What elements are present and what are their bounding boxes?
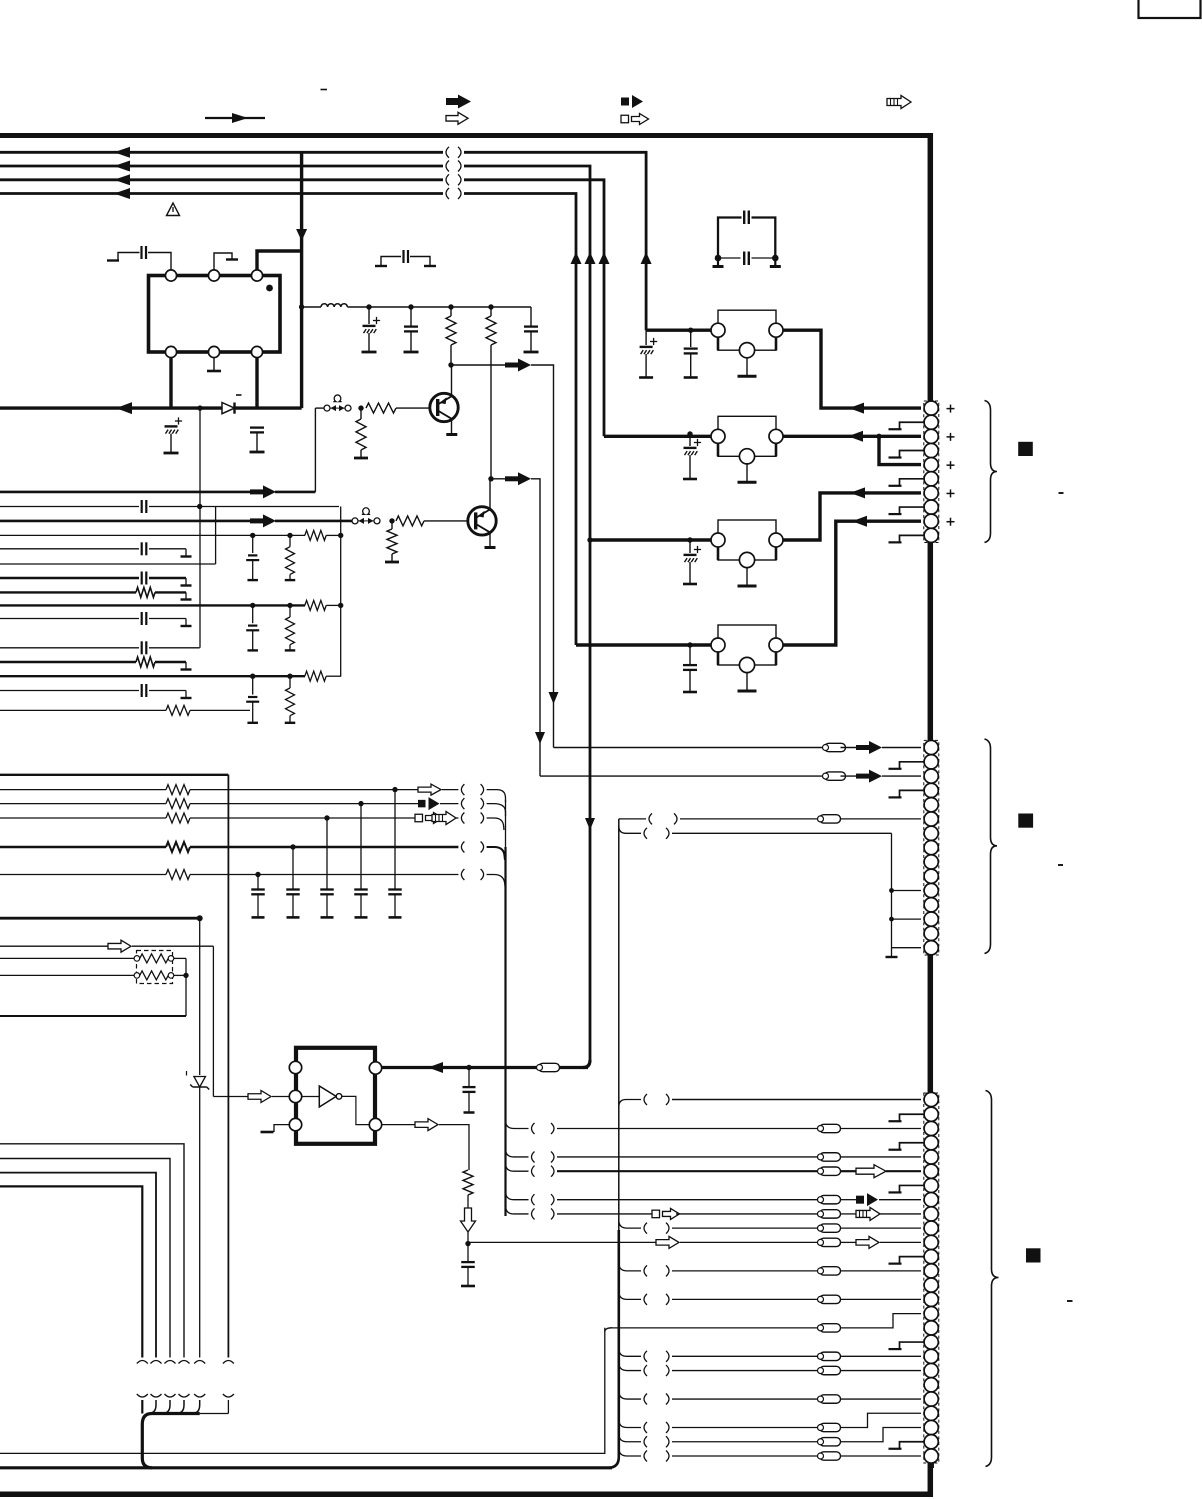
node A: junction at (451,365) with branch arrow right	[448, 362, 453, 367]
wire: bus1 to X1 with junction and caps	[646, 329, 711, 332]
CN3 row 11 feed: from resistor chain junction, open arrows and bead	[468, 1241, 656, 1243]
page frame: right border segment 1	[928, 133, 934, 402]
bus line 1 up-arrowhead	[645, 263, 648, 264]
IC1 pin 4	[165, 346, 176, 357]
IC1 polarity dot	[266, 285, 273, 292]
resistor on rail at x=451	[450, 307, 452, 316]
CN3 pin 19	[924, 1349, 938, 1363]
loop wire 2: from left edge y=1158 down at x=170	[0, 1159, 170, 1358]
supply bus at y=408 with left arrowhead	[0, 406, 302, 409]
CN3 pin 9	[924, 1207, 938, 1221]
row y=564: line with corner riser up to row 506	[0, 563, 216, 565]
row y=818: line with resistor, open square arrow, striped arrow, break, into riser bus	[0, 817, 166, 819]
CN3 pin 8	[924, 1193, 938, 1207]
CN2 ground stub row 2	[900, 762, 924, 769]
wire: IC1 pin5 to ground	[213, 358, 215, 371]
riser x=315 from row 492 up to Q1 jumper row	[314, 408, 316, 492]
row y=710: line with resistor	[0, 709, 166, 711]
jumper link J1 (ohm) in Q1 base line	[324, 405, 330, 411]
jumper link J2 (ohm) in Q2 base line	[352, 518, 358, 524]
sheet label box (top right corner)	[1139, 0, 1201, 18]
riser x=186 from select resistors down to row 1016	[185, 958, 187, 1016]
loop wire 3: from left edge y=1173 down at x=156	[0, 1173, 156, 1358]
CN2 pin 5	[924, 798, 938, 812]
CN2 pin 4	[924, 783, 938, 797]
solid block arrow to x=540 feed	[505, 476, 518, 481]
CN3 pin 6	[924, 1164, 938, 1178]
CN2 pin 3	[924, 769, 938, 783]
capacitor to ground below (253,605)	[252, 605, 254, 623]
CN3 pin 1	[924, 1092, 938, 1106]
row y=676: thick line with junction dots and resistor to riser	[0, 675, 305, 677]
page frame: right border segment 2	[928, 541, 934, 741]
CN3 row 3 feed: hook from riser bus, bead	[506, 1120, 529, 1128]
CN1 pin 5	[924, 458, 938, 472]
wire: bus2 junction to X3	[587, 537, 592, 542]
resonator X4	[718, 625, 776, 665]
bus line 2 up-arrowhead	[589, 263, 592, 264]
capacitor on rail at x=411	[410, 307, 412, 326]
IC2 output row with open arrow to resistor chain	[382, 1124, 415, 1126]
CN2 pin 9	[924, 855, 938, 869]
decoupling capacitor at x=361	[354, 888, 368, 890]
electrolytic capacitor on rail at x=369	[368, 307, 370, 324]
capacitor to ground below (253,676)	[252, 676, 254, 694]
row y=946: line with open arrow turning down at x=213 to inverter input	[0, 945, 108, 947]
wire: IC1 pin3 up to feed line	[257, 251, 302, 270]
CN2 pin 14	[924, 926, 938, 940]
decoupling capacitor stem from row 875 at x=258	[257, 875, 259, 890]
junction at (491,478) with branch arrow right	[488, 476, 493, 481]
brace for CN2 group	[985, 739, 998, 954]
wire: bus3 to X2 with junction and cap	[604, 435, 711, 438]
IC2 internal output routing to pin right-2	[342, 1096, 370, 1124]
x=200 vertical from supply bus down to row 648	[199, 408, 201, 648]
CN3 row 19 feed: hook from x=619 riser, bead	[619, 1348, 641, 1356]
resonator X3	[718, 520, 776, 560]
tiny tick mark left of ZD1	[186, 1071, 188, 1076]
CN3 pin 4	[924, 1136, 938, 1150]
CN3 pin 21	[924, 1378, 938, 1392]
CN3 ground stub row 4	[900, 1143, 924, 1150]
CN1 pin 4	[924, 443, 938, 457]
row y=1016: line from left to riser	[0, 1015, 186, 1017]
loop wire 1: from left edge y=1144 down at x=184	[0, 1144, 184, 1358]
connector CN1 dashed body	[924, 401, 939, 543]
CN3 pin 18	[924, 1335, 938, 1349]
legend: solid block arrow	[446, 98, 459, 105]
page frame: top border of main board outline	[0, 133, 933, 138]
CN2 feed row 1: line with bead and solid arrow	[554, 747, 823, 749]
IC2 pin left-3	[289, 1118, 301, 1130]
CN3 pin 16	[924, 1307, 938, 1321]
IC2 pin right-2	[369, 1118, 381, 1130]
wire: rail after inductor	[347, 306, 531, 308]
resistor R4 pulldown at Q2 base	[391, 521, 393, 529]
legend: signal-path arrow (thin line with solid head)	[205, 117, 265, 119]
bus line 4 with left arrowhead, break, corner down at x=576	[0, 192, 443, 195]
CN3 pin 26	[924, 1449, 938, 1463]
transistor Q1	[430, 393, 458, 421]
CN2 pin 1	[924, 740, 938, 754]
row y=492: line with solid block arrow feeding jumper riser	[0, 491, 253, 494]
open arrow into IC2 input	[213, 1096, 248, 1098]
CN1 ground stub row 10	[900, 535, 924, 542]
junction dot at (468,1244)	[467, 1232, 469, 1244]
CN1 pin 3	[924, 429, 938, 443]
CN2 pin 12	[924, 898, 938, 912]
resistor to ground below (290,676)	[289, 676, 291, 688]
decoupling capacitor stem from row 804 at x=361	[358, 801, 363, 806]
select resistor row 1	[0, 957, 134, 959]
Q2 collector wire up to junction	[489, 479, 491, 510]
row y=774: thick line from left turning down at x=228 (loop feed)	[0, 774, 228, 776]
CN3 pin 13	[924, 1264, 938, 1278]
diode D1 in supply bus	[222, 402, 235, 414]
connector CN3 dashed body	[924, 1093, 939, 1463]
down arrowhead on x=540 line	[539, 732, 541, 733]
Q2 emitter to ground	[489, 533, 491, 548]
capacitor to ground below (253,535)	[252, 535, 254, 553]
bus line 2 with left arrowhead, break, corner down at x=590	[0, 165, 443, 168]
wire: bus4 to X4	[576, 643, 711, 646]
minus label near D1	[236, 394, 242, 396]
CN3 row 13 feed: hook from x=619 riser, bead	[619, 1263, 641, 1271]
row y=618: line with capacitor and stub	[0, 618, 139, 620]
loop wire 4: from left edge y=1186 down at x=142	[0, 1186, 142, 1357]
CN3 ground stub row 12	[900, 1257, 924, 1264]
decoupling capacitor at x=327	[320, 888, 334, 890]
riser x=612-619: thick corner up from y=1468	[608, 1230, 619, 1468]
CN1 ground stub row 4	[900, 451, 924, 458]
CN3 row 8 feed: hook from riser bus, bead, solid square arrow	[506, 1192, 529, 1200]
CN3 pin 24	[924, 1420, 938, 1434]
resistor R3 to Q2 base	[396, 516, 424, 526]
wire: IC1 pin4 down to supply bus	[169, 358, 172, 409]
CN3 pin 17	[924, 1321, 938, 1335]
legend: small solid square arrow	[621, 98, 629, 106]
CN3 ground stub row 2	[900, 1114, 924, 1121]
double capacitor loop block (top right)	[718, 218, 742, 259]
CN3 row 22 feed: hook from x=619 riser, bead	[619, 1391, 641, 1399]
resonator X2	[718, 416, 776, 456]
wire: IC1 pin6 down to supply bus	[255, 358, 258, 409]
zener diode ZD1 on x=200 line from ground rail	[199, 918, 201, 1075]
wire: X2 output to connector row 3	[783, 435, 921, 438]
IC1 pin 6	[251, 346, 262, 357]
CN3 pin 10	[924, 1221, 938, 1235]
row y=790: line with resistor, open arrow, break, into riser bus	[0, 789, 166, 791]
harness trunk: thick line y=1413.5 bending down at x=142 to y=1468	[142, 1414, 199, 1468]
page frame: right border segment 4 and bottom corner	[0, 1462, 930, 1494]
CN1 pin 9	[924, 514, 938, 528]
row y=506: line with capacitor, junction, corner down at x=341	[0, 506, 139, 508]
row y=549: line with capacitor and stub	[0, 548, 139, 550]
capacitor to ground below (468,1244)	[467, 1244, 469, 1261]
electrolytic capacitor at (690,450)	[689, 436, 691, 446]
capacitor on rail at x=531	[530, 307, 532, 326]
CN3 ground stub row 7	[900, 1185, 924, 1192]
IC2 pin right-1	[369, 1062, 381, 1074]
IC1 pin 3	[251, 270, 262, 281]
wire break marks at y=1394 (lower stub tops)	[137, 1394, 148, 1397]
bus line 3 with left arrowhead, break, corner down at x=604	[0, 178, 443, 181]
junction dot Q2 base network	[389, 518, 394, 523]
wire bus2 corner at (590,1067)	[583, 1060, 590, 1068]
inductor L1	[321, 304, 347, 307]
CN3 pin 7	[924, 1178, 938, 1192]
CN3 row 15 feed: hook from x=619 riser, bead	[619, 1291, 641, 1299]
CN3 row 9 feed: hook (riser bottom), open square arrow, bead, striped arrow	[506, 1206, 529, 1214]
regulator module IC1 (6-pin)	[149, 276, 281, 353]
wire break marks at y=1364 (upper ends)	[137, 1361, 148, 1364]
CN2 pin 10	[924, 869, 938, 883]
wire: X4 output up to connector row 9	[783, 521, 921, 645]
row y=592: thick line with resistor and stub	[0, 591, 136, 593]
row y=690: line with capacitor and stub	[0, 690, 139, 692]
decoupling capacitor stem from row 847 at x=293	[290, 844, 295, 849]
row y=648: line with capacitor joining x=200 vertical	[0, 647, 139, 649]
resistor to ground below (290,535)	[289, 535, 291, 546]
CN3 pin 23	[924, 1406, 938, 1420]
junction dots on rail	[366, 304, 371, 309]
CN2 pin 6	[924, 812, 938, 826]
CN1 pin 6	[924, 472, 938, 486]
CN3 row 6 feed: thick, hook from riser bus, bead, open arrow	[506, 1163, 529, 1171]
decoupling capacitor stem from row 818 at x=327	[324, 815, 329, 820]
CN3 pin 3	[924, 1121, 938, 1135]
resistor R5 in chain x=468	[463, 1170, 473, 1195]
capacitor at (690,668)	[687, 642, 692, 647]
CN2 pin 11	[924, 883, 938, 897]
brace for CN3 group	[986, 1091, 999, 1467]
stub network on regulator pin 2	[214, 253, 232, 271]
lower stubs merging into harness line y=1413.5	[141, 1400, 143, 1414]
down arrowhead on x=553 line	[553, 692, 555, 693]
row y=847: thick line with resistor, break, into riser bus	[0, 846, 166, 848]
CN1 ground stub row 2	[900, 422, 924, 429]
thick input line y=1067 from bus2 corner with bead and arrow into IC2	[382, 1066, 588, 1069]
CN2 pin 13	[924, 912, 938, 926]
legend: small open square arrow	[621, 115, 629, 123]
row y=535: line with junction dots and resistor to riser x=341	[0, 534, 305, 536]
CN1 pin 8	[924, 500, 938, 514]
CN2 feed row 7: line to ground chain riser x=891	[619, 826, 641, 833]
CN1 ground stub row 8	[900, 507, 924, 514]
junction dot Q1 base network	[358, 405, 363, 410]
connector CN2 dashed body	[924, 740, 939, 955]
CN3 pin 25	[924, 1435, 938, 1449]
inverter hybrid block IC2	[296, 1048, 375, 1144]
CN1 plus markers	[947, 408, 955, 410]
IC2 pin left-1	[289, 1061, 301, 1073]
bypass capacitor C-a with ground stub (top left of regulator IC)	[107, 259, 119, 261]
resistor on rail at x=491	[490, 307, 492, 316]
CN3 row 17 feed: from x=605 riser corner, bead, jog up to row 16	[605, 1328, 612, 1332]
black square label CN3	[1026, 1248, 1041, 1262]
black square label CN1	[1018, 442, 1033, 456]
CN3 pin 5	[924, 1150, 938, 1164]
ground rail row y=918: thick line ending at junction with zener line	[0, 917, 200, 920]
hollow down arrow below R5	[467, 1195, 469, 1208]
IC2 pin left-2	[289, 1090, 301, 1102]
CN2 pin 2	[924, 755, 938, 769]
capacitor at (690,351)	[690, 330, 692, 347]
CN3 row 26 feed: hook from x=619 riser, bead	[619, 1448, 641, 1456]
dash label CN1	[1059, 492, 1064, 494]
bottom distribution line y=1468 (thick)	[0, 1466, 148, 1469]
bus line 3 up-arrowhead	[603, 263, 606, 264]
legend dash	[321, 89, 328, 91]
CN3 ground stub row 18	[900, 1342, 924, 1349]
page frame: right border segment 3	[928, 953, 934, 1094]
decoupling capacitor at x=293	[286, 888, 300, 890]
row y=875: line with resistor, break, into riser bus	[0, 874, 166, 876]
black square label CN2	[1018, 814, 1033, 828]
bus2 vertical continuing down to inverter feed corner	[589, 540, 592, 1062]
row y=662: thick line with resistor and stub	[0, 661, 136, 663]
CN3 row 25 feed: hook from x=619 riser, bead, jog up to row 24	[619, 1434, 641, 1442]
CN3 pin 2	[924, 1107, 938, 1121]
decoupling capacitor at x=395	[388, 888, 402, 890]
junction and branch to connector row 5	[876, 434, 881, 439]
riser bus x=505.5 (collects rows, runs down to lower fanout)	[505, 800, 507, 847]
IC1 pin 5	[208, 346, 219, 357]
solid block arrow to x=553 feed	[505, 363, 518, 368]
resistor R2 pulldown at Q1 base	[360, 408, 362, 419]
CN3 pin 14	[924, 1278, 938, 1292]
CN2 pin 15	[924, 941, 938, 955]
warning triangle symbol	[167, 203, 180, 216]
wire: X3 output up to connector row 7	[783, 493, 921, 540]
transistor Q2	[468, 507, 496, 535]
CN1 pin 7	[924, 486, 938, 500]
bypass capacitor with two ground stubs (x=381-434)	[375, 265, 387, 267]
CN1 pin 1	[924, 401, 938, 415]
IC1 pin 1	[165, 270, 176, 281]
wire below CN3 last pin to border corner	[928, 1463, 934, 1468]
bus line 1 (top) with left arrowhead, break, corner down at x=648	[0, 151, 443, 154]
CN2 ground stub row 4	[900, 790, 924, 797]
bus line 4 up-arrowhead	[575, 263, 578, 264]
capacitor below IC1 pin6	[250, 426, 264, 428]
CN2 pin 8	[924, 841, 938, 855]
junction dot on supply bus at x=200	[197, 405, 202, 410]
Q1 emitter to ground	[451, 420, 453, 435]
CN3 row 1 feed: hook from x=619 riser	[619, 1100, 641, 1108]
CN3 pin 20	[924, 1363, 938, 1377]
ground chain riser x=891 joining rows 11,13,15	[891, 833, 893, 947]
CN3 pin 12	[924, 1250, 938, 1264]
down arrowhead on x=302 feed	[300, 229, 303, 230]
CN3 ground stub row 25	[900, 1442, 924, 1449]
CN1 pin 10	[924, 528, 938, 542]
bottom line y=1453 (thin) turning up at x=605	[0, 1328, 605, 1454]
IC1 pin 2	[208, 270, 219, 281]
junction dot and capacitor to ground on y=1067 line at x=469	[466, 1065, 471, 1070]
row y=521: thick line with block arrow to jumper J2 and Q2 base	[0, 520, 253, 523]
row y=578: thick line with capacitor and stub	[0, 577, 139, 579]
CN3 row 24 feed: hook from x=619 riser, bead, jog up to row 23	[619, 1420, 641, 1428]
CN3 pin 15	[924, 1292, 938, 1306]
CN3 row 20 feed: hook from x=619 riser, bead	[619, 1363, 641, 1371]
dashed select box with parallel resistors	[137, 951, 173, 984]
CN2 pin 7	[924, 826, 938, 840]
brace for CN1 group	[985, 401, 998, 543]
IC2 pin left-3 ground stub	[274, 1125, 289, 1132]
CN1 ground stub row 6	[900, 479, 924, 486]
electrolytic capacitor at (646,349)	[645, 330, 647, 345]
Q1 collector wire up to node A	[451, 365, 453, 396]
electrolytic capacitor at (690,557)	[689, 540, 691, 553]
CN3 pin 11	[924, 1235, 938, 1249]
CN2 feed row 3: line with bead and solid arrow	[540, 775, 822, 777]
legend: open block arrow	[446, 112, 468, 124]
legend: striped arrow	[887, 96, 911, 109]
wire: feed from bus line 1 down into regulator area (x=302)	[300, 152, 303, 408]
select resistor row 2	[0, 974, 134, 976]
down arrowhead on bus2 vertical below X3 tap	[589, 818, 592, 819]
CN3 pin 22	[924, 1392, 938, 1406]
resistor R1 to Q1 base	[366, 403, 396, 413]
resonator X1 (top)	[718, 310, 776, 350]
wire: X1 output to connector row 1	[783, 330, 921, 408]
row y=804: line with resistor, solid square arrow, break, into riser bus	[0, 803, 166, 805]
inverter gate symbol inside IC2	[302, 1096, 320, 1098]
CN1 pin 2	[924, 415, 938, 429]
CN2 feed row 6: line with bead from x=619 riser corner	[619, 818, 646, 820]
dash label CN2	[1058, 864, 1063, 866]
electrolytic capacitor below IC1 pin4	[165, 425, 178, 427]
wire: supply rail to inductor	[299, 304, 304, 309]
CN3 row 5 feed: hook from riser bus, bead	[506, 1149, 529, 1157]
decoupling capacitor at x=258	[251, 888, 265, 890]
CN3 row 10 feed: hook from x=619 riser, bead	[619, 1220, 641, 1228]
row y=605: thick line with junction dots and resistor to riser	[0, 604, 305, 606]
decoupling capacitor stem from row 790 at x=395	[392, 787, 397, 792]
resistor to ground below (290,605)	[289, 605, 291, 617]
dash label CN3	[1067, 1300, 1073, 1302]
